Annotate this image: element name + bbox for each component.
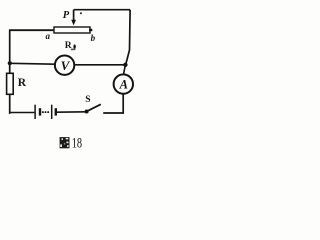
switch S lever <box>87 104 101 111</box>
ammeter A <box>114 74 133 93</box>
svg-text:18: 18 <box>72 136 82 152</box>
wire: battery to bottom-left corner <box>10 112 35 114</box>
resistor R body <box>7 73 14 94</box>
switch pivot node <box>85 110 89 114</box>
svg-text:a: a <box>46 31 51 41</box>
svg-text:A: A <box>119 78 128 92</box>
battery cell plate (short thick, left) <box>39 108 41 115</box>
node: right junction <box>123 63 127 67</box>
svg-text:V: V <box>61 58 71 73</box>
voltmeter V <box>55 55 74 74</box>
wire: junction to ammeter <box>124 65 126 75</box>
svg-text:P: P <box>63 10 70 21</box>
svg-text:R: R <box>18 77 27 89</box>
wire: left vertical (top corner to R top) <box>9 30 11 74</box>
node: left junction <box>8 61 12 65</box>
battery cell plate (short thick, right) <box>55 108 57 115</box>
wire: switch to battery <box>57 111 87 113</box>
wire: left vertical bottom (R bottom to corner) <box>9 94 12 113</box>
svg-text:b: b <box>91 33 96 43</box>
wire: top-left horizontal to rheostat terminal a <box>9 29 55 31</box>
speck near top wire <box>80 12 82 14</box>
rheostat R0 body <box>54 27 90 33</box>
speck above voltmeter <box>71 49 76 51</box>
wire: wiper top horizontal <box>74 9 130 11</box>
battery cell plate (tall thin, left) <box>34 105 36 119</box>
rheostat wiper arrow P <box>71 10 76 26</box>
svg-text:S: S <box>85 95 90 105</box>
caption: 图 (dense glyph drawn as dark block with light gaps) <box>60 137 70 148</box>
battery dots (more cells) <box>42 111 49 113</box>
wire: right vertical <box>126 10 130 65</box>
battery cell plate (tall thin, right) <box>51 105 53 119</box>
label R0 (rheostat value) <box>65 41 76 51</box>
rheostat right terminal stub b <box>89 29 92 31</box>
wire: mid horizontal to voltmeter <box>10 62 55 65</box>
wire: mid horizontal voltmeter to right junction <box>74 64 125 66</box>
svg-text:R: R <box>65 41 72 51</box>
wire: ammeter down to bottom-right corner <box>103 94 123 113</box>
